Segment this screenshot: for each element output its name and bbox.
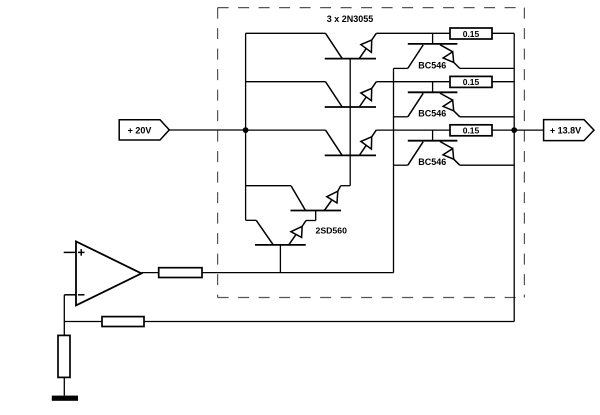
node junction dot at output — [511, 127, 517, 133]
svg-text:BC546: BC546 — [418, 157, 446, 167]
resistor R3 0.15 — [450, 125, 492, 136]
transistor Q2 2N3055 — [246, 82, 377, 107]
svg-text:BC546: BC546 — [418, 60, 446, 70]
transistor Q8 2SD560 lower — [246, 220, 316, 272]
svg-text:0.15: 0.15 — [463, 29, 480, 39]
transistor Q7 2SD560 upper — [246, 186, 351, 221]
svg-text:+ 13.8V: + 13.8V — [550, 126, 581, 136]
svg-text:0.15: 0.15 — [463, 126, 480, 136]
wire R2 to output bus — [492, 81, 514, 83]
svg-text:2SD560: 2SD560 — [316, 226, 348, 236]
wire op-amp output — [141, 272, 158, 274]
transistor Q3 2N3055 — [246, 130, 377, 155]
wire Q4 emitter to output bus — [460, 67, 514, 69]
transistor Q6 BC546 — [408, 130, 460, 165]
supply flag + 20V — [119, 120, 169, 140]
resistor R2 0.15 — [450, 76, 492, 87]
wire Q4 collector to drive bus — [394, 67, 408, 69]
node junction dot at +20V — [243, 127, 249, 133]
wire op-amp minus input — [64, 294, 76, 296]
wire output bus — [513, 33, 515, 321]
ground — [52, 396, 78, 401]
resistor R6 divider lower — [58, 335, 70, 377]
dashed enclosure — [218, 8, 525, 298]
svg-text:BC546: BC546 — [418, 109, 446, 119]
wire Q6 emitter to output bus — [460, 164, 514, 166]
wire feedback from output bus to divider — [64, 321, 514, 323]
transistor Q4 BC546 — [408, 33, 460, 68]
transistor Q1 2N3055 — [246, 33, 377, 58]
wire 2N3055 base bus — [349, 59, 351, 186]
wire Q5 emitter to output bus — [460, 116, 514, 118]
wire drive bus — [393, 68, 395, 272]
wire Q6 collector to drive bus — [394, 164, 408, 166]
svg-text:0.15: 0.15 — [463, 77, 480, 87]
resistor R4 base drive — [159, 268, 202, 278]
wire R4 to drive bus — [202, 272, 394, 274]
resistor R1 0.15 — [450, 28, 492, 39]
resistor R5 feedback — [102, 317, 144, 327]
wire Q1 emitter to R1 — [376, 32, 450, 34]
wire R3 to output bus — [492, 129, 514, 131]
transistor Q5 BC546 — [408, 82, 460, 117]
wire Q3 emitter to R3 — [376, 129, 450, 131]
wire R6 to ground — [63, 377, 65, 395]
wire op-amp plus input stub — [64, 251, 76, 253]
svg-text:+ 20V: + 20V — [128, 125, 152, 135]
wire Q2 emitter to R2 — [376, 81, 450, 83]
wire Q5 collector to drive bus — [394, 116, 408, 118]
wire R1 to output bus — [492, 32, 514, 34]
svg-text:3 x 2N3055: 3 x 2N3055 — [327, 14, 374, 24]
wire +20V to left bus — [169, 129, 245, 131]
wire left collector bus — [245, 33, 247, 220]
output flag + 13.8V — [544, 120, 594, 141]
wire minus input down to divider — [63, 295, 65, 336]
op-amp U1 — [76, 241, 141, 305]
wire output node to +13.8V flag — [514, 129, 543, 131]
